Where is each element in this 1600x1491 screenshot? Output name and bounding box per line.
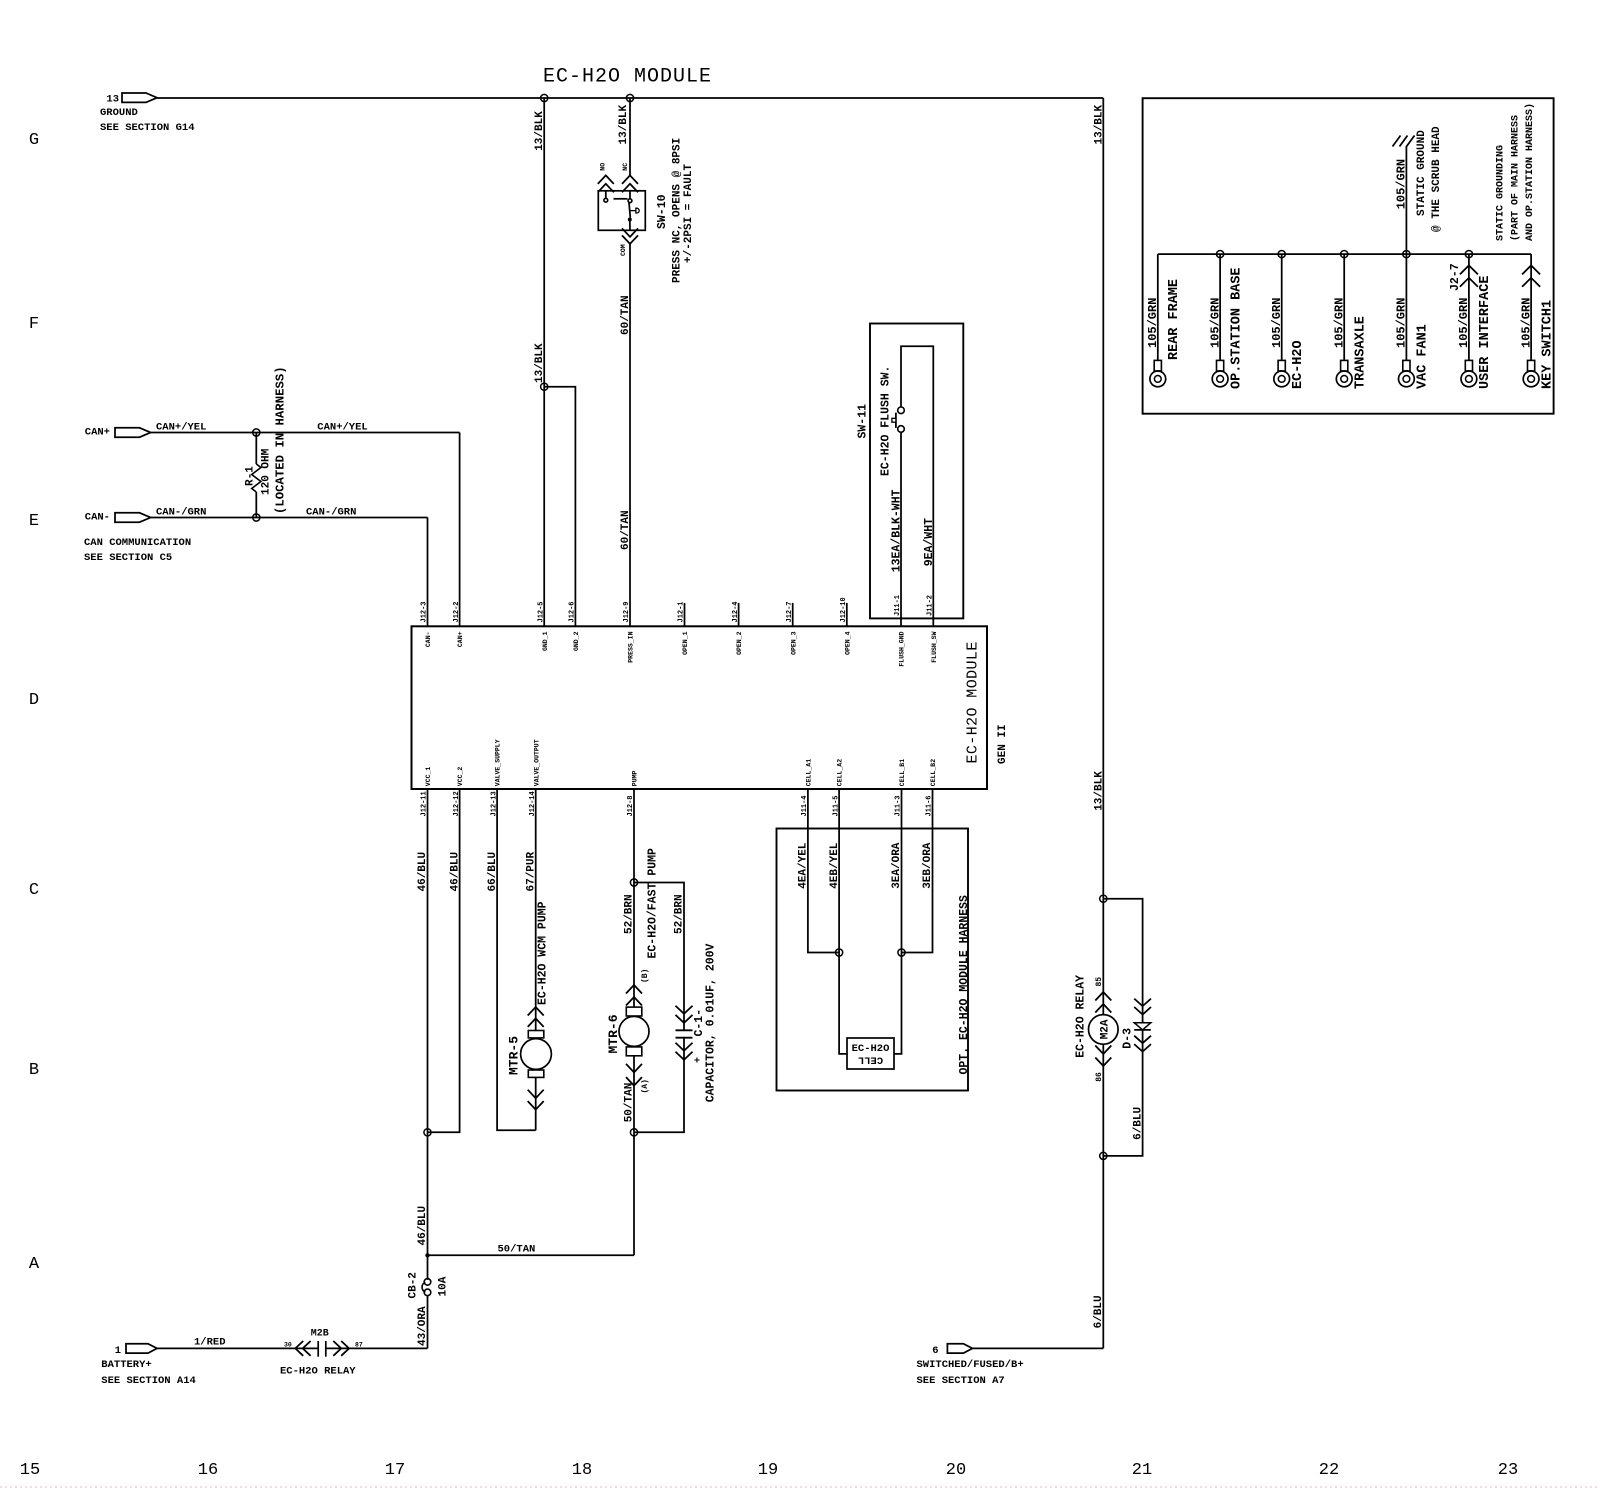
svg-text:EC-H2O: EC-H2O: [1291, 340, 1306, 389]
svg-text:J12-6: J12-6: [569, 601, 577, 622]
svg-text:EC-H2O/FAST PUMP: EC-H2O/FAST PUMP: [646, 848, 659, 959]
svg-text:87: 87: [355, 1342, 363, 1349]
svg-text:(LOCATED IN HARNESS): (LOCATED IN HARNESS): [274, 366, 288, 514]
svg-text:BATTERY+: BATTERY+: [101, 1359, 151, 1371]
svg-text:M2B: M2B: [311, 1329, 329, 1340]
svg-text:4EB/YEL: 4EB/YEL: [829, 842, 841, 889]
svg-text:MTR-6: MTR-6: [606, 1014, 621, 1053]
svg-text:OPT. EC-H2O MODULE HARNESS: OPT. EC-H2O MODULE HARNESS: [958, 895, 971, 1075]
svg-text:CAN+: CAN+: [85, 427, 110, 439]
svg-text:F: F: [29, 315, 39, 334]
svg-text:J12-5: J12-5: [537, 601, 545, 622]
svg-text:120 OHM: 120 OHM: [261, 448, 273, 495]
svg-text:NC: NC: [622, 163, 629, 171]
ground terminal USER INTERFACE: [1468, 254, 1470, 360]
ground terminal KEY SWITCH1: [1530, 254, 1532, 360]
node junction relay top: [1100, 895, 1107, 902]
svg-text:PRESS NC, OPENS @ 8PSI: PRESS NC, OPENS @ 8PSI: [672, 138, 684, 283]
svg-text:D-3: D-3: [1121, 1028, 1134, 1049]
svg-text:19: 19: [758, 1461, 778, 1480]
svg-text:CELL_A2: CELL_A2: [837, 759, 844, 786]
svg-text:USER INTERFACE: USER INTERFACE: [1478, 276, 1493, 389]
svg-text:SW-11: SW-11: [856, 404, 869, 439]
wire 4EB/YEL from J11-5: [838, 789, 840, 953]
svg-text:MTR-5: MTR-5: [507, 1036, 522, 1075]
svg-text:67/PUR: 67/PUR: [525, 851, 537, 891]
svg-text:13/BLK: 13/BLK: [1093, 104, 1105, 144]
svg-text:50/TAN: 50/TAN: [624, 1083, 636, 1123]
circuit breaker CB-2 10A: [424, 1279, 431, 1286]
svg-text:OPEN_1: OPEN_1: [682, 631, 689, 655]
svg-text:J12-4: J12-4: [732, 601, 740, 622]
svg-text:C: C: [29, 881, 39, 900]
svg-text:J12-3: J12-3: [421, 601, 429, 622]
svg-text:(A): (A): [641, 1079, 650, 1093]
svg-text:CAN+/YEL: CAN+/YEL: [317, 422, 367, 434]
wire 43/ORA below CB-2: [427, 1296, 429, 1349]
pin J12-1 OPEN_1 (top): [684, 603, 686, 626]
svg-text:PRESS_IN: PRESS_IN: [628, 631, 635, 662]
svg-text:GEN II: GEN II: [997, 724, 1009, 764]
svg-text:23: 23: [1498, 1461, 1518, 1480]
svg-text:TRANSAXLE: TRANSAXLE: [1354, 316, 1369, 389]
svg-text:3EB/ORA: 3EB/ORA: [922, 842, 934, 889]
svg-text:46/BLU: 46/BLU: [449, 852, 461, 892]
svg-text:OPEN_2: OPEN_2: [736, 631, 743, 655]
svg-text:EC-H2O FLUSH SW.: EC-H2O FLUSH SW.: [880, 366, 893, 476]
svg-text:CAN COMMUNICATION: CAN COMMUNICATION: [84, 537, 191, 549]
svg-text:105/GRN: 105/GRN: [1519, 298, 1533, 348]
wire FLUSH_SW J11-2: [901, 346, 933, 626]
node tee 50/TAN: [425, 1253, 429, 1257]
motor MTR-5 EC-H2O WCM PUMP: [528, 1007, 544, 1016]
svg-text:D: D: [29, 691, 39, 710]
svg-text:PUMP: PUMP: [632, 770, 639, 786]
node junction capacitor bottom: [630, 1129, 637, 1136]
wire 46/BLU from J12-11: [427, 789, 429, 1132]
svg-text:105/GRN: 105/GRN: [1332, 298, 1346, 348]
svg-text:66/BLU: 66/BLU: [487, 852, 499, 892]
svg-text:(B): (B): [641, 969, 650, 983]
svg-text:1/RED: 1/RED: [194, 1337, 226, 1349]
wire 46/BLU down to CB-2: [427, 1132, 429, 1280]
motor MTR-6 EC-H2O FAST PUMP: [626, 985, 642, 994]
svg-text:6: 6: [932, 1345, 938, 1357]
electrolysis cell EC-H2O CELL: [847, 1038, 894, 1069]
wire 4EA/YEL from J11-4: [808, 789, 839, 953]
svg-text:4EA/YEL: 4EA/YEL: [798, 842, 810, 889]
svg-text:G: G: [29, 131, 39, 150]
svg-text:SEE SECTION G14: SEE SECTION G14: [100, 122, 195, 134]
wire 3EA/ORA from J11-3: [901, 789, 903, 953]
svg-text:18: 18: [572, 1461, 592, 1480]
svg-text:AND OP.STATION HARNESS): AND OP.STATION HARNESS): [1524, 103, 1536, 241]
svg-text:SEE SECTION C5: SEE SECTION C5: [84, 552, 172, 564]
svg-text:+: +: [694, 1057, 705, 1063]
node junction CAN- at R-1: [253, 514, 260, 521]
svg-text:CAN+: CAN+: [457, 631, 464, 647]
svg-text:GND_1: GND_1: [542, 631, 549, 651]
svg-text:52/BRN: 52/BRN: [674, 894, 686, 934]
svg-text:SWITCHED/FUSED/B+: SWITCHED/FUSED/B+: [917, 1359, 1024, 1371]
node junction GND split: [541, 383, 548, 390]
ground terminal OP.STATION BASE: [1219, 254, 1221, 360]
svg-text:FLUSH_GND: FLUSH_GND: [899, 631, 906, 666]
svg-text:CELL_B1: CELL_B1: [899, 759, 906, 786]
node junction cell B: [898, 949, 905, 956]
svg-text:17: 17: [385, 1461, 405, 1480]
svg-text:OPEN_3: OPEN_3: [790, 631, 797, 655]
svg-text:STATIC GROUND: STATIC GROUND: [1416, 130, 1428, 216]
ground terminal VAC FAN1: [1405, 254, 1407, 360]
svg-text:105/GRN: 105/GRN: [1208, 298, 1222, 348]
svg-text:9EA/WHT: 9EA/WHT: [923, 518, 936, 566]
svg-text:1: 1: [115, 1345, 121, 1357]
svg-text:B: B: [29, 1061, 39, 1080]
svg-text:6/BLU: 6/BLU: [1132, 1107, 1144, 1140]
connector arrows KEY SWITCH1: [1522, 265, 1540, 274]
wire 13/BLK to SW-10 NC: [629, 98, 631, 175]
svg-text:OP.STATION BASE: OP.STATION BASE: [1229, 267, 1244, 389]
svg-text:REAR FRAME: REAR FRAME: [1167, 279, 1182, 360]
wire ground bus 13/BLK top horizontal: [157, 97, 1103, 99]
wire CAN+/YEL: [151, 432, 460, 434]
wire 60/TAN COM to pin J12-9: [629, 244, 631, 626]
diode D-3: [1103, 899, 1142, 1023]
svg-text:10A: 10A: [438, 1276, 450, 1296]
svg-text:21: 21: [1132, 1461, 1152, 1480]
svg-text:22: 22: [1319, 1461, 1339, 1480]
svg-text:SEE SECTION A7: SEE SECTION A7: [917, 1375, 1005, 1387]
svg-text:105/GRN: 105/GRN: [1270, 298, 1284, 348]
ground terminal REAR FRAME: [1157, 254, 1159, 360]
svg-text:M2A: M2A: [1099, 1019, 1111, 1039]
svg-text:CELL: CELL: [858, 1054, 883, 1066]
svg-text:43/ORA: 43/ORA: [417, 1306, 429, 1346]
svg-text:13/BLK: 13/BLK: [1093, 771, 1105, 811]
svg-text:60/TAN: 60/TAN: [620, 295, 632, 335]
svg-text:50/TAN: 50/TAN: [498, 1244, 536, 1256]
wire 13/BLK right vertical: [1102, 98, 1104, 899]
svg-text:J12-1: J12-1: [678, 601, 686, 622]
wire FLUSH_GND J11-1: [900, 432, 902, 626]
wire 3EB/ORA from J11-6: [902, 789, 933, 953]
svg-text:EC-H2O RELAY: EC-H2O RELAY: [280, 1366, 356, 1378]
svg-text:VALVE_OUTPUT: VALVE_OUTPUT: [533, 739, 540, 786]
svg-text:13/BLK: 13/BLK: [534, 111, 546, 151]
harness box OPT. EC-H2O MODULE HARNESS: [777, 829, 969, 1091]
svg-text:15: 15: [20, 1461, 40, 1480]
svg-text:FLUSH_SW: FLUSH_SW: [931, 631, 938, 662]
node junction 13/BLK at x630: [626, 94, 633, 101]
svg-text:CAN-/GRN: CAN-/GRN: [156, 507, 206, 519]
pin J12-10 OPEN_4 (top): [846, 603, 848, 626]
svg-text:105/GRN: 105/GRN: [1457, 298, 1471, 348]
svg-text:16: 16: [198, 1461, 218, 1480]
capacitor C-1 0.01UF 200V: [676, 1006, 693, 1014]
svg-text:CELL_A1: CELL_A1: [806, 759, 813, 786]
svg-text:A: A: [29, 1255, 40, 1274]
wire cell B to cell box: [894, 953, 902, 1054]
node junction cell A: [836, 949, 843, 956]
svg-text:13: 13: [106, 94, 119, 106]
svg-text:J12-7: J12-7: [786, 601, 794, 622]
connector J2-7 arrows USER INTERFACE: [1460, 265, 1478, 274]
wire 67/PUR from J12-14 to MTR-5: [535, 789, 537, 1031]
svg-text:VAC FAN1: VAC FAN1: [1416, 324, 1431, 389]
svg-text:(PART OF MAIN HARNESS: (PART OF MAIN HARNESS: [1509, 115, 1521, 241]
svg-text:30: 30: [284, 1342, 292, 1349]
svg-text:46/BLU: 46/BLU: [417, 852, 429, 892]
svg-text:EC-H2O: EC-H2O: [852, 1043, 890, 1055]
svg-text:CAN-: CAN-: [85, 512, 110, 524]
svg-text:GND_2: GND_2: [573, 631, 580, 651]
svg-text:CAN+/YEL: CAN+/YEL: [156, 422, 206, 434]
svg-text:52/BRN: 52/BRN: [624, 894, 636, 934]
wire GND_2 branch to pin J12-6: [544, 387, 575, 627]
pin J12-7 OPEN_3 (top): [792, 603, 794, 626]
node junction relay bottom: [1100, 1152, 1107, 1159]
svg-text:EC-H2O WCM PUMP: EC-H2O WCM PUMP: [537, 901, 550, 1005]
svg-text:105/GRN: 105/GRN: [1395, 159, 1409, 209]
svg-text:STATIC GROUNDING: STATIC GROUNDING: [1496, 145, 1507, 241]
svg-text:CELL_B2: CELL_B2: [930, 759, 937, 786]
wire cell A to cell box: [839, 953, 847, 1054]
pushbutton contacts SW-11: [898, 426, 905, 433]
wire 6/BLU bottom: [972, 1347, 1104, 1349]
svg-text:J12-10: J12-10: [840, 597, 848, 622]
svg-text:46/BLU: 46/BLU: [417, 1206, 429, 1246]
svg-text:VALVE_SUPPLY: VALVE_SUPPLY: [495, 739, 502, 786]
wire ground bus 105/GRN: [1158, 253, 1531, 255]
node junction 13/BLK at x544: [541, 94, 548, 101]
svg-text:KEY SWITCH1: KEY SWITCH1: [1540, 300, 1555, 389]
svg-text:CAPACITOR, 0.01UF, 200V: CAPACITOR, 0.01UF, 200V: [705, 943, 718, 1102]
svg-text:105/GRN: 105/GRN: [1395, 298, 1409, 348]
ground terminal TRANSAXLE: [1343, 254, 1345, 360]
wire capacitor branch top: [634, 883, 684, 1031]
wire CAN+ down to pin J12-2: [459, 433, 461, 627]
pin J12-4 OPEN_2 (top): [738, 603, 740, 626]
svg-text:GROUND: GROUND: [100, 107, 138, 119]
svg-text:CAN-: CAN-: [425, 632, 432, 648]
node junction CAN+ at R-1: [253, 429, 260, 436]
svg-text:13EA/BLK-WHT: 13EA/BLK-WHT: [891, 489, 904, 572]
svg-text:NO: NO: [600, 163, 607, 171]
wire 66/BLU from J12-13: [497, 789, 536, 1130]
wire 1/RED: [157, 1347, 318, 1349]
svg-text:13/BLK: 13/BLK: [618, 104, 630, 144]
svg-text:VCC_1: VCC_1: [425, 767, 432, 787]
svg-text:86: 86: [1095, 1072, 1104, 1082]
bottom border dotted line: [0, 1486, 1600, 1488]
svg-text:J12-2: J12-2: [453, 601, 461, 622]
switch box SW-11 EC-H2O FLUSH SW: [870, 324, 963, 619]
static ground chassis symbol: [1405, 146, 1407, 254]
svg-text:SW-10: SW-10: [656, 194, 669, 229]
wire 52/BRN from J12-8: [633, 789, 635, 1007]
svg-text:EC-H2O MODULE: EC-H2O MODULE: [965, 641, 982, 763]
wire CAN- down to pin J12-3: [427, 518, 429, 627]
node junction pump/capacitor top: [630, 879, 637, 886]
SW-10 COM connector arrows: [622, 228, 638, 237]
wire 13/BLK vertical to GND pins: [543, 98, 545, 387]
wire 46/BLU from J12-12: [428, 789, 460, 1132]
op-amp/module box EC-H2O MODULE: [412, 626, 988, 789]
wire CAN-/GRN: [151, 517, 428, 519]
wire 50/TAN horizontal: [428, 1254, 635, 1256]
svg-text:SEE SECTION A14: SEE SECTION A14: [101, 1375, 196, 1387]
grounding box STATIC GROUNDING: [1143, 98, 1554, 414]
wire GND_1 to pin J12-5: [543, 387, 545, 627]
svg-text:EC-H2O RELAY: EC-H2O RELAY: [1075, 975, 1088, 1058]
svg-text:@ THE SCRUB HEAD: @ THE SCRUB HEAD: [1431, 126, 1443, 232]
svg-text:R-1: R-1: [245, 466, 257, 486]
svg-text:6/BLU: 6/BLU: [1093, 1295, 1105, 1328]
svg-text:CB-2: CB-2: [408, 1272, 420, 1298]
wire 43/ORA to CB-2: [326, 1347, 428, 1349]
svg-text:13/BLK: 13/BLK: [534, 343, 546, 383]
svg-text:60/TAN: 60/TAN: [620, 510, 632, 550]
svg-text:J12-9: J12-9: [623, 601, 631, 622]
svg-text:J2-7: J2-7: [1449, 263, 1462, 291]
svg-text:3EA/ORA: 3EA/ORA: [891, 842, 903, 889]
wire capacitor branch bottom: [634, 1038, 684, 1133]
svg-text:20: 20: [946, 1461, 966, 1480]
svg-text:E: E: [29, 512, 39, 531]
svg-text:VCC_2: VCC_2: [457, 767, 464, 787]
svg-text:105/GRN: 105/GRN: [1146, 298, 1160, 348]
svg-text:CAN-/GRN: CAN-/GRN: [306, 507, 356, 519]
svg-text:EC-H2O MODULE: EC-H2O MODULE: [543, 66, 712, 89]
ground terminal EC-H2O: [1281, 254, 1283, 360]
pressure switch SW-10: [622, 175, 638, 184]
svg-text:+/-2PSI = FAULT: +/-2PSI = FAULT: [683, 164, 695, 263]
node junction VCC wires: [424, 1129, 431, 1136]
resistor R-1 120 OHM: [255, 433, 257, 465]
svg-text:COM: COM: [620, 244, 627, 256]
svg-text:OPEN_4: OPEN_4: [844, 631, 851, 655]
